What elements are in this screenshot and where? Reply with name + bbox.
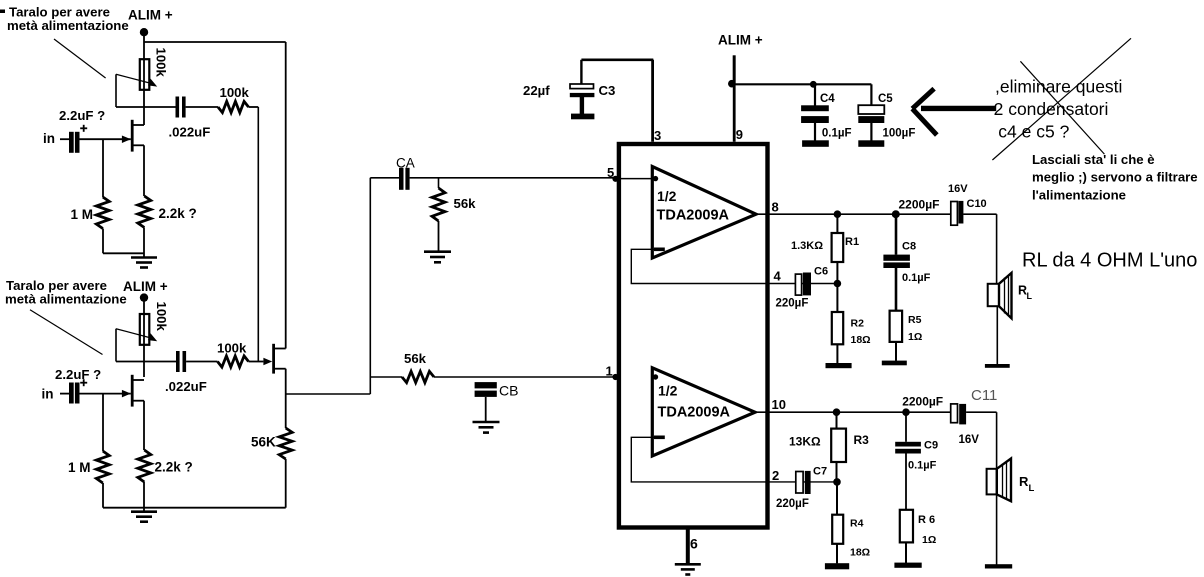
svg-text:16V: 16V xyxy=(959,434,980,446)
svg-text:C8: C8 xyxy=(902,241,916,253)
svg-text:6: 6 xyxy=(690,536,698,552)
svg-text:2 condensatori: 2 condensatori xyxy=(994,99,1109,119)
svg-text:100k: 100k xyxy=(154,302,169,332)
svg-text:16V: 16V xyxy=(948,183,968,195)
svg-text:2: 2 xyxy=(772,468,779,483)
svg-text:CA: CA xyxy=(396,156,415,171)
svg-text:in: in xyxy=(42,387,54,402)
svg-text:0.1µF: 0.1µF xyxy=(822,128,852,140)
svg-text:4: 4 xyxy=(774,269,782,284)
svg-text:100k: 100k xyxy=(217,341,247,356)
svg-text:220µF: 220µF xyxy=(776,298,809,310)
svg-text:10: 10 xyxy=(772,397,786,412)
svg-text:ALIM +: ALIM + xyxy=(128,8,173,23)
svg-text:in: in xyxy=(43,131,55,146)
svg-text:L: L xyxy=(1029,483,1035,494)
svg-text:TDA2009A: TDA2009A xyxy=(658,405,731,421)
svg-text:TDA2009A: TDA2009A xyxy=(657,208,730,224)
svg-text:1/2: 1/2 xyxy=(657,188,677,204)
svg-text:R 6: R 6 xyxy=(918,514,935,526)
svg-text:8: 8 xyxy=(772,200,779,215)
svg-text:metà alimentazione: metà alimentazione xyxy=(7,18,129,33)
svg-text:100k: 100k xyxy=(154,48,169,78)
svg-text:C4: C4 xyxy=(820,93,835,105)
svg-text:R3: R3 xyxy=(854,433,870,447)
svg-text:R1: R1 xyxy=(845,236,859,248)
svg-text:C5: C5 xyxy=(878,93,893,105)
svg-text:2.2k ?: 2.2k ? xyxy=(155,460,193,475)
svg-text:,eliminare questi: ,eliminare questi xyxy=(995,76,1122,96)
svg-text:56k: 56k xyxy=(454,196,477,211)
svg-text:L: L xyxy=(1027,291,1033,301)
svg-text:2.2uF ?: 2.2uF ? xyxy=(55,367,101,382)
svg-text:1Ω: 1Ω xyxy=(922,534,936,546)
svg-text:9: 9 xyxy=(736,127,743,142)
svg-text:1/2: 1/2 xyxy=(658,382,678,398)
svg-text:l'alimentazione: l'alimentazione xyxy=(1032,187,1126,202)
svg-text:R5: R5 xyxy=(908,314,922,326)
svg-text:3: 3 xyxy=(654,128,661,143)
svg-text:18Ω: 18Ω xyxy=(850,547,870,559)
svg-text:2200µF: 2200µF xyxy=(902,395,943,409)
svg-text:1: 1 xyxy=(606,364,613,379)
svg-text:R4: R4 xyxy=(850,518,864,530)
svg-text:1 M: 1 M xyxy=(71,207,94,222)
svg-text:c4 e c5 ?: c4 e c5 ? xyxy=(998,121,1069,141)
svg-text:1.3KΩ: 1.3KΩ xyxy=(791,240,823,252)
svg-text:meglio ;) servono a filtrare: meglio ;) servono a filtrare xyxy=(1032,170,1198,185)
svg-text:ALIM +: ALIM + xyxy=(718,33,763,48)
svg-text:CB: CB xyxy=(499,383,518,399)
svg-text:18Ω: 18Ω xyxy=(851,334,871,346)
svg-text:100k: 100k xyxy=(220,85,250,100)
svg-text:metà alimentazione: metà alimentazione xyxy=(5,292,127,307)
svg-text:56k: 56k xyxy=(404,351,427,366)
svg-text:RL da 4 OHM L'uno: RL da 4 OHM L'uno xyxy=(1022,250,1197,272)
svg-text:C7: C7 xyxy=(813,466,827,478)
svg-text:1 M: 1 M xyxy=(68,460,91,475)
svg-text:ALIM +: ALIM + xyxy=(123,279,168,294)
svg-text:0.1µF: 0.1µF xyxy=(908,460,937,472)
svg-text:C11: C11 xyxy=(971,387,997,404)
svg-text:22µf: 22µf xyxy=(523,83,550,98)
svg-text:0.1µF: 0.1µF xyxy=(902,272,931,284)
svg-text:2.2uF ?: 2.2uF ? xyxy=(59,108,105,123)
svg-text:.022uF: .022uF xyxy=(169,125,211,140)
svg-text:R: R xyxy=(1019,474,1029,489)
svg-text:R2: R2 xyxy=(851,318,865,330)
svg-text:C6: C6 xyxy=(814,266,828,278)
svg-text:C10: C10 xyxy=(967,198,987,210)
svg-text:.022uF: .022uF xyxy=(165,379,207,394)
svg-text:C9: C9 xyxy=(924,440,938,452)
svg-text:Lasciali sta' li che è: Lasciali sta' li che è xyxy=(1032,152,1155,167)
svg-text:13KΩ: 13KΩ xyxy=(789,435,821,449)
svg-text:100µF: 100µF xyxy=(883,128,916,140)
svg-text:2.2k ?: 2.2k ? xyxy=(159,206,197,221)
svg-text:220µF: 220µF xyxy=(776,498,809,510)
svg-text:2200µF: 2200µF xyxy=(899,198,940,212)
svg-text:1Ω: 1Ω xyxy=(908,331,922,343)
svg-text:56K: 56K xyxy=(251,435,276,450)
svg-text:C3: C3 xyxy=(599,83,616,98)
